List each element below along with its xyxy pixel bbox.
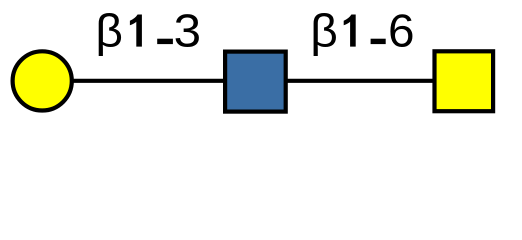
linkage label beta1-6 : glyph 1 [344, 15, 356, 47]
monosaccharide GlcNAc (blue square) [225, 52, 286, 112]
svg-text:6: 6 [388, 5, 415, 57]
linkage label beta1-3 : glyph hyphen [157, 39, 173, 44]
monosaccharide Gal (yellow circle) [13, 51, 72, 110]
svg-text:β: β [95, 5, 123, 57]
wire: bond Gal to GlcNAc [42, 79, 255, 83]
svg-text:β: β [310, 5, 338, 57]
wire: bond GlcNAc to GalNAc [255, 79, 464, 83]
linkage label beta1-6 : glyph hyphen [371, 39, 386, 44]
linkage label beta1-3 : glyph 1 [130, 15, 142, 47]
monosaccharide GalNAc (yellow square) [435, 51, 494, 111]
svg-text:3: 3 [174, 5, 201, 57]
